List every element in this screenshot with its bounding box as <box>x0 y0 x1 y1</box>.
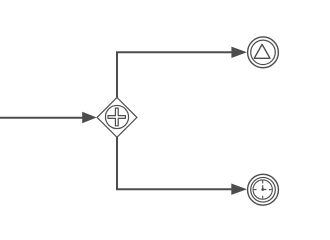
clock tick 9 <box>254 189 257 191</box>
arrowhead into signal event <box>231 47 247 58</box>
gateway G1 inner circle <box>105 105 128 128</box>
event E2 (timer catch) outer circle <box>248 174 279 205</box>
wire: flow from gateway top to signal event <box>117 52 232 97</box>
wire: incoming sequence flow into gateway <box>0 117 83 119</box>
event E1 signal triangle <box>254 44 270 58</box>
gateway G1 (parallel event-based) diamond <box>97 98 137 138</box>
clock tick 12 <box>262 181 264 184</box>
clock tick 3 <box>269 189 272 191</box>
event E1 (signal catch) outer circle <box>248 37 279 68</box>
event E1 inner circle <box>251 40 276 65</box>
arrowhead into gateway <box>82 112 97 123</box>
clock hour hand <box>262 185 264 189</box>
clock minute hand <box>263 189 267 191</box>
clock center dot <box>261 188 264 191</box>
gateway G1 cross marker <box>108 108 125 126</box>
event E2 clock face <box>253 180 272 199</box>
arrowhead into timer event <box>231 184 247 195</box>
wire: flow from gateway bottom to timer event <box>117 137 232 189</box>
clock tick 6 <box>262 196 264 199</box>
event E2 inner circle <box>251 177 276 202</box>
